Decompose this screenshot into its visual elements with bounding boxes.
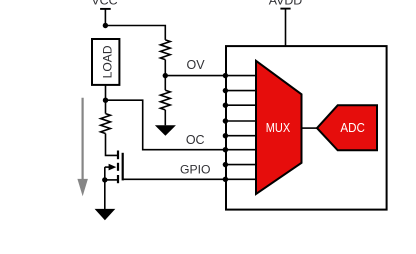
ground Q1 source (95, 209, 116, 220)
svg-text:AVDD: AVDD (269, 0, 303, 8)
current flow arrow (77, 98, 88, 196)
junction dot mux input 8 (223, 177, 228, 182)
multiplexer MUX (256, 61, 302, 194)
net label VCC (91, 0, 117, 8)
net label OV (186, 58, 205, 72)
mux input stub row 1 (225, 75, 256, 77)
mux input stub row 8 (225, 178, 256, 180)
svg-text:MUX: MUX (266, 121, 291, 135)
svg-text:VCC: VCC (91, 0, 117, 8)
mux input stub row 5 (225, 135, 256, 137)
resistor R3 drain (101, 100, 111, 133)
junction dot VCC node (103, 23, 108, 28)
junction dot mux input 1 (223, 73, 228, 78)
net label OC (186, 133, 205, 147)
mux input stub row 2 (225, 90, 256, 92)
junction dot mux input 7 (223, 162, 228, 167)
wire MUX output to ADC (302, 127, 318, 129)
transistor Q1 (105, 151, 123, 184)
resistor R2 lower divider (160, 76, 170, 110)
junction dot mux input 2 (223, 88, 228, 93)
wire OV net to ADC box (165, 75, 225, 77)
AVDD power rail tick (280, 8, 290, 10)
svg-text:LOAD: LOAD (101, 45, 115, 78)
wire VCC node to divider branch (105, 26, 165, 40)
mux input stub row 6 (225, 149, 256, 151)
net label GPIO (180, 162, 210, 176)
svg-text:ADC: ADC (340, 121, 365, 135)
wire R3 to Q1 drain (106, 134, 118, 156)
mux input stub row 7 (225, 164, 256, 166)
mux input stub row 4 (225, 120, 256, 122)
wire LOAD to node A (105, 85, 107, 100)
junction dot mux input 5 (223, 133, 228, 138)
wire R2 to ground (164, 110, 166, 125)
junction dot mux input 3 (223, 103, 228, 108)
svg-text:OV: OV (186, 58, 205, 72)
junction dot mux input 4 (223, 118, 228, 123)
wire R1 to OV node (164, 60, 166, 76)
wire AVDD to ADC box (285, 9, 287, 47)
load LOAD (92, 39, 119, 85)
junction dot Q1 source (102, 177, 107, 182)
wire GPIO gate line (123, 178, 226, 180)
mux input stub row 3 (225, 104, 256, 106)
net label AVDD (269, 0, 303, 8)
ADC converter (317, 105, 377, 150)
junction dot mux input 6 (223, 147, 228, 152)
ground divider branch (155, 125, 176, 136)
resistor R1 upper divider (160, 40, 170, 60)
svg-text:OC: OC (186, 133, 205, 147)
wire node A to OC input (OC line) (106, 100, 226, 150)
junction dot node A (103, 98, 108, 103)
ADC subsystem box (226, 46, 387, 210)
wire VCC tick to VCC node (104, 9, 106, 26)
VCC power rail tick (100, 8, 111, 10)
junction dot OV node (163, 73, 168, 78)
svg-text:GPIO: GPIO (180, 162, 210, 176)
wire Q1 source to ground (104, 180, 106, 210)
